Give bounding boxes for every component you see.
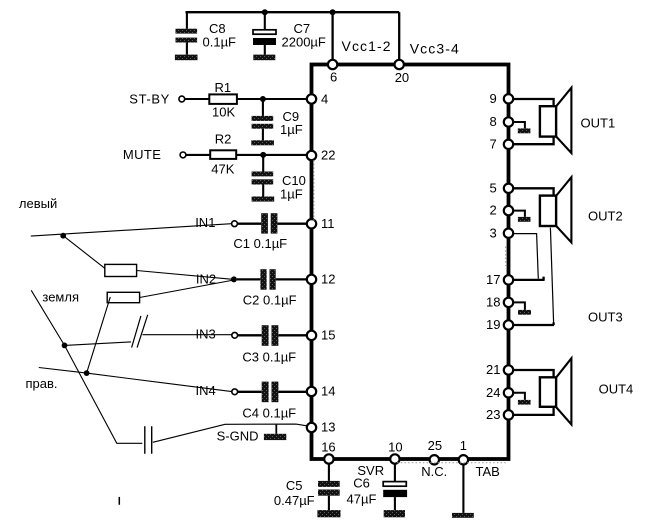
wire TAB to ground bbox=[462, 465, 464, 513]
ground pin 24 bbox=[511, 393, 531, 405]
svg-text:Vcc3-4: Vcc3-4 bbox=[410, 41, 460, 57]
capacitor C6 47uF bbox=[347, 464, 408, 510]
pin 22 bbox=[307, 148, 336, 163]
pin 14 bbox=[307, 384, 336, 399]
svg-text:земля: земля bbox=[42, 290, 79, 305]
wire R2 to pin 22 bbox=[236, 154, 307, 156]
svg-text:47K: 47K bbox=[211, 162, 234, 177]
wire Vcc3-4 drop bbox=[398, 12, 400, 64]
pin 13 bbox=[307, 420, 336, 435]
svg-text:C4 0.1µF: C4 0.1µF bbox=[242, 405, 296, 420]
ground C5 bbox=[317, 510, 340, 517]
pin 18 bbox=[486, 295, 513, 310]
node junction right lead bbox=[84, 370, 90, 376]
node IN3 terminal bbox=[196, 327, 238, 342]
node IN1 terminal bbox=[195, 215, 237, 230]
pin 17 bbox=[486, 272, 513, 287]
wire MUTE to R2 bbox=[186, 154, 210, 156]
wire pin 21 to speaker OUT4 bbox=[511, 370, 554, 377]
wire C3 to pin 15 bbox=[278, 334, 306, 336]
capacitor C1 0.1uF bbox=[233, 213, 287, 251]
speaker OUT2 bbox=[540, 177, 623, 242]
svg-text:25: 25 bbox=[428, 438, 442, 453]
svg-text:IN4: IN4 bbox=[196, 383, 216, 398]
svg-text:7: 7 bbox=[490, 137, 497, 152]
wire R1 to pin 4 bbox=[237, 98, 307, 100]
node ST-BY terminal bbox=[129, 92, 184, 107]
svg-text:IN3: IN3 bbox=[196, 327, 216, 342]
pin 24 bbox=[486, 385, 513, 400]
wire IN2 to C2 bbox=[237, 278, 261, 280]
pin 2 bbox=[490, 203, 514, 218]
node junction rail-C7 bbox=[262, 9, 268, 15]
wire C4 to pin 14 bbox=[278, 391, 306, 393]
wire dotted artifact right edge bbox=[505, 247, 507, 267]
ground pin 2 bbox=[511, 211, 531, 222]
wire ST-BY to R1 bbox=[185, 98, 210, 100]
wire pin 3 to pin 17 wire bbox=[512, 234, 539, 279]
wire pin 9 to speaker OUT1 bbox=[511, 99, 554, 106]
wire bead box 1 to IN2 node bbox=[137, 271, 234, 280]
pin 3 bbox=[490, 225, 514, 240]
svg-text:OUT3: OUT3 bbox=[588, 310, 623, 325]
svg-text:N.C.: N.C. bbox=[421, 464, 447, 479]
wire C2 to pin 12 bbox=[276, 278, 307, 280]
svg-text:левый: левый bbox=[19, 196, 57, 211]
wire bead box 2 to node D bbox=[87, 297, 111, 373]
capacitor inline IN3 (slashes) bbox=[132, 315, 148, 348]
wire IN3 to C3 bbox=[238, 334, 262, 336]
svg-text:10K: 10K bbox=[212, 105, 235, 120]
wire pin 23 to speaker OUT4 bbox=[511, 407, 554, 415]
wire tick mark bottom left bbox=[118, 497, 120, 505]
pin 5 bbox=[490, 180, 514, 195]
svg-text:1: 1 bbox=[460, 438, 467, 453]
node junction rail-Vcc bbox=[330, 9, 336, 15]
ground C10 bbox=[252, 197, 275, 202]
svg-text:прав.: прав. bbox=[26, 376, 58, 391]
svg-text:0.1µF: 0.1µF bbox=[203, 35, 237, 50]
ground S-GND bbox=[264, 425, 286, 440]
node junction R2/C10 bbox=[260, 152, 266, 158]
wire pin 19 stub bbox=[511, 322, 554, 325]
pin 16 bbox=[321, 439, 335, 463]
svg-text:1µF: 1µF bbox=[280, 122, 303, 137]
ferrite bead box 1 bbox=[105, 264, 137, 276]
pin 20 bbox=[395, 60, 410, 85]
op-amp IC U1 body bbox=[312, 65, 509, 460]
pin 12 bbox=[307, 272, 336, 287]
node junction R1/C9 bbox=[260, 96, 266, 102]
svg-text:16: 16 bbox=[321, 439, 335, 454]
svg-text:6: 6 bbox=[330, 69, 337, 84]
svg-text:R2: R2 bbox=[215, 132, 232, 147]
pin 1 TAB bbox=[459, 438, 500, 479]
wire supply top rail bbox=[186, 11, 400, 13]
pin 21 bbox=[486, 362, 513, 377]
svg-text:47µF: 47µF bbox=[347, 492, 377, 507]
wire bead box 2 to IN2 node bbox=[140, 280, 234, 298]
svg-text:2200µF: 2200µF bbox=[282, 35, 326, 50]
pin 4 bbox=[307, 91, 328, 106]
wire pin 5 to speaker OUT2 bbox=[511, 188, 554, 196]
wire right lead to IN4 bbox=[39, 368, 232, 392]
node junction ground lead bbox=[62, 343, 68, 349]
pin 15 bbox=[307, 328, 336, 343]
ground C6 bbox=[384, 510, 405, 517]
wire pin 17 stub bbox=[511, 277, 545, 280]
pin 8 bbox=[490, 114, 514, 129]
svg-text:1µF: 1µF bbox=[280, 186, 303, 201]
svg-text:C1 0.1µF: C1 0.1µF bbox=[233, 236, 287, 251]
node MUTE terminal bbox=[123, 147, 186, 162]
ferrite bead box 2 bbox=[107, 292, 139, 302]
svg-text:12: 12 bbox=[321, 272, 335, 287]
wire node B to IN3 coupling cap bbox=[65, 342, 132, 346]
svg-text:14: 14 bbox=[321, 384, 335, 399]
capacitor C10 1uF bbox=[252, 155, 306, 201]
pin 11 bbox=[307, 216, 335, 231]
speaker OUT4 bbox=[540, 358, 633, 424]
resistor R1 10K bbox=[209, 80, 237, 120]
svg-text:20: 20 bbox=[395, 70, 409, 85]
svg-text:S-GND: S-GND bbox=[217, 429, 259, 444]
svg-text:2: 2 bbox=[490, 203, 497, 218]
svg-text:8: 8 bbox=[490, 114, 497, 129]
pin 10 SVR bbox=[357, 439, 402, 478]
svg-text:OUT4: OUT4 bbox=[599, 381, 634, 396]
wire ground lead bbox=[31, 290, 142, 443]
svg-text:C3 0.1µF: C3 0.1µF bbox=[242, 350, 296, 365]
wire dotted artifact bottom edge bbox=[397, 462, 507, 464]
speaker OUT1 bbox=[540, 88, 615, 153]
svg-text:24: 24 bbox=[486, 385, 500, 400]
pin 23 bbox=[486, 407, 513, 422]
resistor R2 47K bbox=[210, 132, 236, 177]
svg-text:4: 4 bbox=[321, 91, 328, 106]
ground pin 18 bbox=[511, 302, 531, 314]
capacitor C4 0.1uF bbox=[242, 382, 296, 421]
svg-text:18: 18 bbox=[486, 295, 500, 310]
svg-text:9: 9 bbox=[490, 91, 497, 106]
pin 9 bbox=[490, 91, 514, 106]
svg-text:13: 13 bbox=[321, 420, 335, 435]
pin 7 bbox=[490, 137, 514, 152]
svg-text:C6: C6 bbox=[353, 476, 370, 491]
ground pin 8 bbox=[511, 122, 530, 133]
svg-text:IN2: IN2 bbox=[196, 271, 216, 286]
svg-text:3: 3 bbox=[490, 225, 497, 240]
svg-text:21: 21 bbox=[486, 362, 500, 377]
wire coupling cap to IN3 bbox=[143, 334, 232, 336]
capacitor C9 1uF bbox=[252, 99, 303, 140]
svg-text:0.47µF: 0.47µF bbox=[274, 493, 315, 508]
pin 6 bbox=[328, 60, 337, 85]
svg-text:11: 11 bbox=[321, 216, 335, 231]
svg-text:22: 22 bbox=[321, 148, 335, 163]
svg-text:C5: C5 bbox=[286, 478, 303, 493]
svg-text:TAB: TAB bbox=[476, 464, 500, 479]
pin 25 N.C. bbox=[421, 438, 447, 479]
wire pin 7 to speaker OUT1 bbox=[511, 136, 554, 144]
wire IN4 to C4 bbox=[238, 391, 262, 393]
svg-text:OUT2: OUT2 bbox=[588, 209, 623, 224]
node junction left lead bbox=[60, 233, 66, 239]
svg-text:MUTE: MUTE bbox=[123, 147, 161, 162]
wire speaker OUT2 bottom to pin 19 wire bbox=[550, 228, 553, 323]
wire S-GND cap to pin 13 bbox=[153, 424, 308, 442]
wire IN1 to C1 bbox=[237, 223, 261, 225]
svg-text:IN1: IN1 bbox=[195, 215, 215, 230]
svg-text:15: 15 bbox=[321, 328, 335, 343]
capacitor inline S-GND lead bbox=[145, 426, 152, 454]
svg-text:23: 23 bbox=[486, 407, 500, 422]
wire Vcc1-2 drop bbox=[331, 12, 333, 64]
wire junction to bead box 1 bbox=[63, 236, 105, 269]
capacitor C2 0.1uF bbox=[243, 269, 297, 307]
svg-text:ST-BY: ST-BY bbox=[129, 92, 170, 107]
node IN4 terminal bbox=[196, 383, 238, 398]
capacitor C5 0.47uF bbox=[274, 464, 340, 510]
capacitor C7 2200uF bbox=[253, 12, 326, 54]
svg-text:17: 17 bbox=[486, 272, 500, 287]
node IN2 junction bbox=[196, 271, 237, 286]
pin 19 bbox=[486, 317, 513, 332]
wire dotted artifact left edge bbox=[313, 160, 315, 221]
svg-text:OUT1: OUT1 bbox=[581, 116, 616, 131]
svg-text:Vcc1-2: Vcc1-2 bbox=[342, 38, 392, 54]
ground C8 bbox=[175, 55, 198, 61]
svg-text:5: 5 bbox=[490, 180, 497, 195]
wire C1 to pin 11 bbox=[277, 223, 306, 225]
svg-text:19: 19 bbox=[486, 317, 500, 332]
ground C7 bbox=[253, 55, 275, 61]
wire speaker lead to IN1 bbox=[31, 224, 232, 236]
svg-text:10: 10 bbox=[388, 439, 402, 454]
ground C9 bbox=[251, 140, 274, 145]
capacitor C8 0.1uF bbox=[176, 12, 237, 54]
svg-text:C2 0.1µF: C2 0.1µF bbox=[243, 292, 297, 307]
ground TAB bbox=[452, 513, 474, 518]
capacitor C3 0.1uF bbox=[242, 325, 296, 364]
svg-text:R1: R1 bbox=[215, 80, 232, 95]
